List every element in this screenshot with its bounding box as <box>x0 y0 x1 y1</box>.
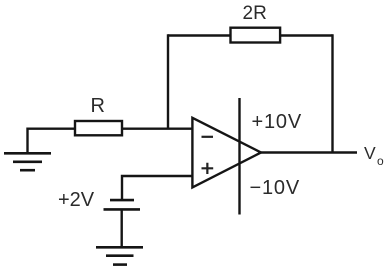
wire non-inverting input <box>122 175 193 200</box>
wire battery to ground <box>120 209 122 247</box>
svg-text:+2V: +2V <box>58 189 95 211</box>
svg-text:V: V <box>364 143 376 163</box>
ground left <box>4 153 51 170</box>
svg-text:R: R <box>91 95 105 117</box>
wire inverting input horizontal <box>28 127 193 129</box>
wire top feedback horizontal <box>168 34 333 36</box>
resistor 2R <box>231 28 281 43</box>
svg-text:2R: 2R <box>243 3 267 24</box>
wire feedback right vertical <box>331 34 333 152</box>
wire output <box>261 151 357 153</box>
svg-text:−10V: −10V <box>250 177 300 199</box>
resistor R <box>75 121 122 135</box>
ground bottom <box>96 247 143 264</box>
wire feedback left vertical <box>167 34 169 129</box>
wire left ground drop <box>26 128 28 154</box>
battery +2V <box>104 200 141 209</box>
op-amp plus sign <box>202 163 214 174</box>
op-amp minus sign <box>202 136 214 138</box>
op-amp U1 <box>192 118 261 188</box>
power rail vertical line <box>238 98 240 215</box>
svg-text:o: o <box>377 154 384 168</box>
svg-text:+10V: +10V <box>252 111 302 133</box>
